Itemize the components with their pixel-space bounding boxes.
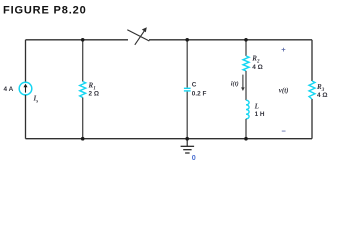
- svg-text:+: +: [281, 45, 286, 54]
- node dot L bottom: [244, 137, 248, 141]
- current arrow i(t): [242, 75, 244, 88]
- svg-text:L: L: [254, 102, 259, 110]
- wire R2-L middle: [245, 71, 247, 100]
- svg-text:4 A: 4 A: [4, 86, 14, 93]
- svg-text:s: s: [35, 100, 38, 105]
- node dot R1 top: [81, 38, 85, 42]
- svg-text:i(t): i(t): [231, 81, 239, 88]
- ground bar 1: [181, 145, 195, 147]
- svg-text:FIGURE P8.20: FIGURE P8.20: [3, 5, 87, 17]
- resistor R1: [80, 82, 86, 98]
- wire bottom: [26, 138, 313, 140]
- svg-text:4 Ω: 4 Ω: [252, 64, 262, 71]
- node dot R2 top: [244, 38, 248, 42]
- wire L branch lower: [245, 119, 247, 139]
- svg-text:0: 0: [192, 153, 196, 162]
- wire right side upper: [311, 40, 313, 81]
- svg-text:C: C: [192, 81, 197, 88]
- svg-text:v(t): v(t): [279, 86, 289, 94]
- wire C branch upper: [186, 40, 188, 88]
- inductor L: [246, 100, 249, 119]
- svg-text:0.2 F: 0.2 F: [192, 91, 207, 98]
- svg-text:2 Ω: 2 Ω: [89, 90, 99, 97]
- current source arrow: [25, 87, 27, 93]
- ground bar 3: [185, 152, 190, 154]
- ground bar 2: [183, 149, 191, 151]
- wire left lower: [25, 95, 27, 139]
- switch motion arrow: [135, 30, 145, 45]
- wire R1 branch lower: [82, 98, 84, 139]
- resistor R3: [309, 81, 315, 99]
- node dot ground: [185, 137, 189, 141]
- svg-text:1 H: 1 H: [255, 111, 265, 118]
- node dot C top: [185, 38, 189, 42]
- wire left side: [25, 40, 27, 83]
- svg-text:−: −: [282, 127, 287, 136]
- switch blade: [127, 30, 149, 41]
- wire R2 branch upper: [245, 40, 247, 56]
- svg-text:4 Ω: 4 Ω: [317, 92, 327, 99]
- wire top-left segment: [26, 39, 129, 41]
- wire right side lower: [311, 99, 313, 139]
- ground stub: [186, 139, 188, 146]
- wire R1 branch upper: [82, 40, 84, 82]
- wire C branch lower: [186, 92, 188, 139]
- capacitor C plates: [184, 87, 191, 89]
- node dot R1 bottom: [81, 137, 85, 141]
- resistor R2: [243, 56, 249, 71]
- current source Is circle: [19, 82, 32, 95]
- wire top-right segment: [149, 39, 312, 41]
